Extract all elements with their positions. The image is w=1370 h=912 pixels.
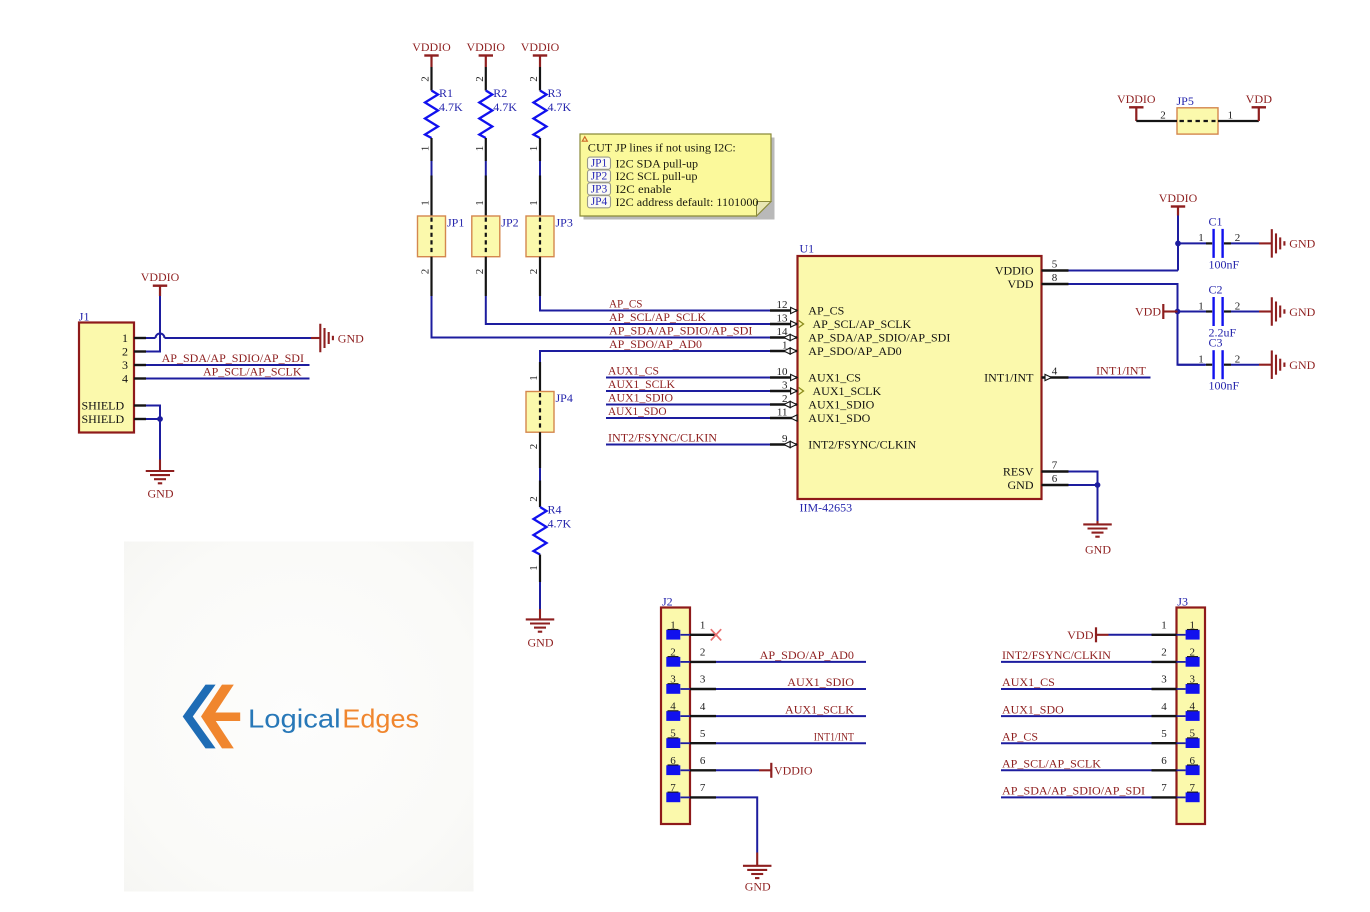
svg-text:GND: GND: [745, 879, 771, 893]
svg-text:4: 4: [1052, 366, 1058, 378]
svg-text:3: 3: [700, 674, 706, 686]
svg-text:JP3: JP3: [556, 216, 573, 230]
svg-text:2: 2: [700, 647, 706, 659]
svg-text:1: 1: [1228, 110, 1234, 122]
svg-text:2: 2: [1235, 354, 1241, 366]
svg-text:7: 7: [1161, 782, 1167, 794]
svg-text:2: 2: [528, 269, 540, 275]
svg-text:100nF: 100nF: [1209, 257, 1240, 271]
svg-text:AP_SCL/AP_SCLK: AP_SCL/AP_SCLK: [813, 317, 912, 331]
svg-text:4.7K: 4.7K: [439, 100, 463, 114]
svg-text:AP_CS: AP_CS: [808, 304, 844, 318]
svg-text:1: 1: [700, 620, 706, 632]
svg-text:VDD: VDD: [1067, 628, 1094, 642]
svg-text:AUX1_SCLK: AUX1_SCLK: [813, 384, 882, 398]
svg-text:2: 2: [474, 76, 486, 82]
svg-text:5: 5: [1052, 259, 1058, 271]
svg-text:4.7K: 4.7K: [548, 100, 572, 114]
svg-text:GND: GND: [338, 331, 364, 345]
svg-text:AUX1_SCLK: AUX1_SCLK: [785, 702, 854, 716]
svg-text:1: 1: [474, 200, 486, 206]
svg-text:AUX1_CS: AUX1_CS: [808, 371, 861, 385]
svg-text:GND: GND: [148, 487, 174, 501]
svg-text:2: 2: [528, 496, 540, 502]
svg-text:AP_SDA/AP_SDIO/AP_SDI: AP_SDA/AP_SDIO/AP_SDI: [162, 351, 304, 365]
svg-text:4: 4: [700, 701, 706, 713]
svg-text:Edges: Edges: [342, 704, 419, 734]
svg-text:3: 3: [1161, 674, 1167, 686]
svg-text:2: 2: [1235, 232, 1241, 244]
svg-text:7: 7: [1052, 460, 1058, 472]
svg-text:VDDIO: VDDIO: [412, 40, 451, 54]
svg-text:C3: C3: [1209, 336, 1223, 350]
svg-text:12: 12: [777, 299, 788, 311]
svg-text:GND: GND: [1008, 478, 1034, 492]
svg-text:AUX1_CS: AUX1_CS: [608, 364, 659, 378]
svg-text:INT2/FSYNC/CLKIN: INT2/FSYNC/CLKIN: [1002, 648, 1111, 662]
svg-text:1: 1: [528, 200, 540, 206]
svg-text:AUX1_SDIO: AUX1_SDIO: [808, 398, 874, 412]
svg-text:VDDIO: VDDIO: [774, 764, 813, 778]
svg-text:2: 2: [528, 444, 540, 450]
svg-text:INT1/INT: INT1/INT: [814, 729, 855, 743]
svg-text:100nF: 100nF: [1209, 379, 1240, 393]
svg-text:2: 2: [1160, 110, 1166, 122]
svg-text:1: 1: [1198, 354, 1204, 366]
svg-text:AUX1_SDO: AUX1_SDO: [608, 404, 667, 418]
svg-text:VDDIO: VDDIO: [995, 264, 1034, 278]
svg-text:AP_CS: AP_CS: [609, 297, 643, 311]
svg-text:7: 7: [700, 782, 706, 794]
svg-text:I2C address default: 1101000: I2C address default: 1101000: [616, 195, 759, 209]
svg-text:GND: GND: [528, 636, 554, 650]
svg-text:4: 4: [122, 372, 128, 386]
svg-text:GND: GND: [1085, 543, 1111, 557]
svg-text:1: 1: [1198, 232, 1204, 244]
svg-text:VDDIO: VDDIO: [467, 40, 506, 54]
svg-text:Logical: Logical: [248, 704, 341, 734]
svg-text:1: 1: [474, 146, 486, 152]
svg-text:AP_SDO/AP_AD0: AP_SDO/AP_AD0: [760, 648, 854, 662]
svg-text:INT1/INT: INT1/INT: [984, 371, 1034, 385]
svg-text:JP3: JP3: [591, 183, 608, 195]
svg-text:1: 1: [1198, 300, 1204, 312]
svg-text:6: 6: [1052, 473, 1058, 485]
svg-text:VDD: VDD: [1246, 92, 1273, 106]
svg-text:R1: R1: [439, 86, 453, 100]
svg-text:6: 6: [700, 755, 706, 767]
svg-text:AP_SDO/AP_AD0: AP_SDO/AP_AD0: [808, 344, 901, 358]
svg-text:GND: GND: [1289, 358, 1315, 372]
svg-text:2: 2: [1235, 300, 1241, 312]
svg-text:R3: R3: [548, 86, 562, 100]
svg-text:AUX1_SCLK: AUX1_SCLK: [608, 377, 675, 391]
svg-text:VDDIO: VDDIO: [141, 270, 180, 284]
svg-text:13: 13: [777, 312, 789, 324]
svg-text:J1: J1: [79, 310, 90, 324]
svg-text:1: 1: [420, 146, 432, 152]
svg-text:INT1/INT: INT1/INT: [1096, 364, 1147, 378]
svg-text:1: 1: [528, 146, 540, 152]
svg-text:3: 3: [122, 358, 128, 372]
svg-text:4.7K: 4.7K: [493, 100, 517, 114]
svg-text:C2: C2: [1209, 283, 1223, 297]
svg-text:AP_SCL/AP_SCLK: AP_SCL/AP_SCLK: [203, 365, 302, 379]
svg-text:INT2/FSYNC/CLKIN: INT2/FSYNC/CLKIN: [608, 431, 717, 445]
svg-text:6: 6: [1161, 755, 1167, 767]
svg-text:2: 2: [420, 269, 432, 275]
svg-text:JP1: JP1: [591, 158, 608, 170]
svg-text:AUX1_SDO: AUX1_SDO: [1002, 702, 1064, 716]
svg-text:C1: C1: [1209, 214, 1223, 228]
svg-text:U1: U1: [800, 242, 815, 256]
svg-text:AP_SDA/AP_SDIO/AP_SDI: AP_SDA/AP_SDIO/AP_SDI: [1002, 784, 1145, 798]
svg-text:GND: GND: [1289, 305, 1315, 319]
svg-text:AP_SCL/AP_SCLK: AP_SCL/AP_SCLK: [609, 310, 706, 324]
svg-text:1: 1: [528, 565, 540, 571]
svg-text:R2: R2: [493, 86, 507, 100]
svg-text:AUX1_SDO: AUX1_SDO: [808, 411, 870, 425]
svg-text:IIM-42653: IIM-42653: [800, 501, 853, 515]
svg-text:VDD: VDD: [1135, 305, 1161, 319]
svg-text:2: 2: [122, 345, 128, 359]
svg-text:SHIELD: SHIELD: [82, 399, 125, 413]
svg-text:5: 5: [700, 728, 706, 740]
svg-text:2: 2: [528, 76, 540, 82]
svg-text:AUX1_SDIO: AUX1_SDIO: [787, 675, 854, 689]
svg-text:SHIELD: SHIELD: [82, 412, 125, 426]
svg-text:I2C SDA pull-up: I2C SDA pull-up: [616, 156, 699, 170]
svg-text:INT2/FSYNC/CLKIN: INT2/FSYNC/CLKIN: [808, 438, 916, 452]
svg-text:10: 10: [777, 366, 789, 378]
svg-text:JP4: JP4: [591, 196, 608, 208]
svg-text:JP2: JP2: [501, 216, 518, 230]
svg-text:RESV: RESV: [1003, 465, 1034, 479]
svg-text:GND: GND: [1289, 237, 1315, 251]
svg-text:AP_SDO/AP_AD0: AP_SDO/AP_AD0: [609, 337, 702, 351]
svg-text:AP_SDA/AP_SDIO/AP_SDI: AP_SDA/AP_SDIO/AP_SDI: [609, 324, 752, 338]
svg-text:5: 5: [1161, 728, 1167, 740]
svg-text:2: 2: [420, 76, 432, 82]
svg-text:AP_CS: AP_CS: [1002, 729, 1038, 743]
svg-text:AP_SDA/AP_SDIO/AP_SDI: AP_SDA/AP_SDIO/AP_SDI: [808, 331, 950, 345]
svg-text:VDDIO: VDDIO: [1159, 191, 1198, 205]
svg-text:VDDIO: VDDIO: [521, 40, 560, 54]
svg-text:2: 2: [474, 269, 486, 275]
svg-text:JP4: JP4: [556, 391, 573, 405]
svg-text:JP2: JP2: [591, 171, 608, 183]
svg-text:4: 4: [1161, 701, 1167, 713]
svg-text:3: 3: [782, 379, 788, 391]
svg-text:1: 1: [122, 331, 128, 345]
svg-text:VDD: VDD: [1008, 277, 1034, 291]
svg-text:JP1: JP1: [447, 216, 464, 230]
svg-text:AUX1_SDIO: AUX1_SDIO: [608, 391, 673, 405]
svg-text:R4: R4: [548, 503, 562, 517]
svg-text:JP5: JP5: [1177, 94, 1194, 108]
svg-text:CUT JP lines if not using I2C:: CUT JP lines if not using I2C:: [588, 141, 736, 155]
svg-text:1: 1: [528, 375, 540, 381]
svg-text:1: 1: [420, 200, 432, 206]
svg-text:11: 11: [777, 406, 788, 418]
svg-text:8: 8: [1052, 272, 1058, 284]
svg-text:VDDIO: VDDIO: [1117, 92, 1156, 106]
svg-text:AUX1_CS: AUX1_CS: [1002, 675, 1055, 689]
svg-text:1: 1: [1161, 620, 1167, 632]
svg-text:AP_SCL/AP_SCLK: AP_SCL/AP_SCLK: [1002, 757, 1101, 771]
svg-text:4.7K: 4.7K: [548, 517, 572, 531]
svg-text:2: 2: [1161, 647, 1167, 659]
